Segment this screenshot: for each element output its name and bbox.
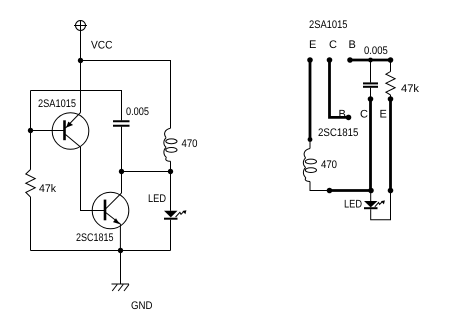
node: E bottom junction xyxy=(388,188,394,194)
node: base junction xyxy=(28,128,33,133)
wire: VCC rail and drop to coil xyxy=(81,61,171,129)
node: E-coil junction xyxy=(308,137,313,142)
svg-text:LED: LED xyxy=(148,193,166,205)
node: Q1 B pin xyxy=(347,57,353,63)
svg-text:47k: 47k xyxy=(39,183,56,195)
node: VCC junction xyxy=(78,58,83,63)
LED D1 xyxy=(164,172,178,251)
lead: Q1 base bus xyxy=(350,59,391,62)
node: coil/LED junction xyxy=(168,169,173,174)
svg-text:B: B xyxy=(339,109,346,121)
wire: Q2 emitter down xyxy=(119,224,121,251)
lead: Q1 collector to Q2 base xyxy=(330,60,349,117)
inductor 470 (layout) xyxy=(303,149,316,182)
svg-text:2SC1815: 2SC1815 xyxy=(76,232,114,244)
LED (layout) xyxy=(364,191,391,220)
wire: E dot to coil xyxy=(309,140,311,149)
wire: middle rail xyxy=(122,171,171,173)
svg-text:E: E xyxy=(309,39,316,51)
svg-text:47k: 47k xyxy=(401,83,419,95)
svg-text:0.005: 0.005 xyxy=(364,45,388,57)
ground stem xyxy=(120,251,122,284)
LED light arrow xyxy=(176,210,187,217)
wire: left vertical lower xyxy=(30,197,32,251)
node: Q1 C pin xyxy=(327,57,333,63)
power terminal VCC xyxy=(74,20,87,32)
wire: upper rail to capacitor xyxy=(31,91,122,121)
wire: coil to bottom rail xyxy=(310,182,330,191)
svg-text:E: E xyxy=(380,109,387,121)
lead: Q1 emitter down xyxy=(309,60,312,140)
lead: Q2 emitter xyxy=(389,99,392,191)
node: resistor bottom xyxy=(388,96,394,102)
node: capacitor bottom xyxy=(368,96,374,102)
node: coil/bus junction xyxy=(327,188,333,194)
node: LED top junction xyxy=(368,188,374,194)
svg-text:LED: LED xyxy=(344,199,362,211)
svg-text:470: 470 xyxy=(182,138,198,150)
lead: Q2 collector xyxy=(369,99,372,191)
resistor R1 47k xyxy=(26,170,35,198)
svg-text:2SA1015: 2SA1015 xyxy=(309,19,348,31)
wire: bottom rail xyxy=(31,250,171,252)
node: capacitor/collector junction xyxy=(119,169,124,174)
capacitor 0.005 (layout) xyxy=(363,60,378,99)
node: capacitor tap xyxy=(368,58,373,63)
svg-text:2SA1015: 2SA1015 xyxy=(38,98,76,110)
wire: Q1 emitter up to VCC rail xyxy=(80,61,82,113)
svg-text:C: C xyxy=(329,39,337,51)
wire: bottom bus thick xyxy=(330,189,372,192)
svg-text:0.005: 0.005 xyxy=(126,106,149,118)
node: Q1 E pin xyxy=(307,57,313,63)
svg-text:470: 470 xyxy=(321,159,337,171)
node: Q2 B pin xyxy=(346,115,352,121)
svg-text:VCC: VCC xyxy=(91,40,113,52)
ground symbol xyxy=(112,284,130,291)
wire: Q1 collector down to Q2 base xyxy=(81,147,105,211)
svg-text:B: B xyxy=(349,39,356,51)
svg-text:C: C xyxy=(360,109,368,121)
svg-text:2SC1815: 2SC1815 xyxy=(318,127,358,139)
wire: terminal to VCC node xyxy=(80,31,82,61)
wire: Q2 collector up to middle rail xyxy=(121,172,123,194)
node: bus end xyxy=(388,57,394,63)
transistor Q1 2SA1015 (PNP) xyxy=(52,113,89,150)
inductor 470 (coil) xyxy=(164,128,177,161)
resistor 47k (layout) xyxy=(386,60,395,99)
wire: coil to middle rail xyxy=(170,161,172,171)
wire: base of Q1 xyxy=(31,130,64,132)
transistor Q2 2SC1815 (NPN) xyxy=(92,192,129,229)
capacitor C1 xyxy=(113,121,130,171)
node: emitter/ground junction xyxy=(118,248,123,253)
svg-text:GND: GND xyxy=(131,300,153,312)
LED light arrow (layout) xyxy=(375,200,385,206)
wire: left vertical upper xyxy=(30,91,32,170)
